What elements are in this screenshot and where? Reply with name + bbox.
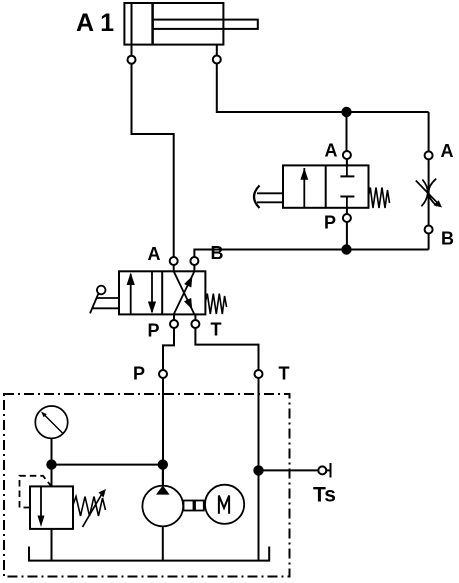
relief valve internal arrow xyxy=(40,486,42,517)
junction pump xyxy=(159,460,167,468)
power unit enclosure dash-dot box xyxy=(4,394,290,577)
4/2 lever links xyxy=(97,297,120,299)
2/2 valve spring xyxy=(369,188,390,209)
2/2 valve V2 body xyxy=(283,165,369,207)
4/2 spring xyxy=(205,294,226,314)
reservoir line xyxy=(29,547,269,561)
wire right port to top rail xyxy=(217,64,429,113)
pump outlet wire xyxy=(162,526,164,560)
svg-text:B: B xyxy=(211,243,224,263)
motor letter M xyxy=(219,496,229,514)
2/2 valve divider xyxy=(325,165,327,207)
svg-text:Ts: Ts xyxy=(313,484,336,507)
2/2 valve port A circle xyxy=(343,151,351,159)
svg-text:P: P xyxy=(324,213,336,233)
4/2 valve port B circle xyxy=(190,257,198,265)
Ts end bar xyxy=(330,463,332,478)
svg-text:A 1: A 1 xyxy=(76,9,114,37)
pump triangle xyxy=(156,486,170,495)
cylinder right port line xyxy=(216,45,218,56)
wire junction down to 2/2 valve A xyxy=(346,112,348,151)
pump P1 circle xyxy=(142,486,183,527)
4/2 left square up arrow xyxy=(130,274,132,314)
throttle through-wire xyxy=(428,159,430,225)
wire T to power unit xyxy=(195,328,258,370)
4/2 left square down arrow xyxy=(151,271,153,312)
2/2 valve blocked port top xyxy=(346,165,348,176)
4/2 lever knob xyxy=(97,286,106,295)
svg-text:T: T xyxy=(211,320,222,340)
svg-text:T: T xyxy=(279,364,290,384)
junction Ts xyxy=(254,466,262,474)
2/2 valve P stub xyxy=(346,208,348,214)
gauge stem xyxy=(51,438,53,464)
4/2 valve port T circle xyxy=(191,320,199,328)
svg-text:B: B xyxy=(441,229,454,249)
cylinder right port xyxy=(213,56,221,64)
throttle valve arcs xyxy=(421,180,427,207)
2/2 valve open-path arrow xyxy=(303,168,305,208)
wire left port to valve A xyxy=(132,64,174,257)
4/2 valve port P circle xyxy=(170,320,178,328)
bottom rail wire xyxy=(194,250,428,258)
throttle valve port B circle xyxy=(425,226,433,234)
cylinder piston xyxy=(151,3,154,45)
coupling boxes xyxy=(184,501,194,511)
2/2 valve blocked port bottom xyxy=(340,196,354,198)
wire P to power unit xyxy=(163,328,174,370)
cylinder cap line xyxy=(131,3,133,45)
cylinder A1 body xyxy=(124,3,223,45)
pump inlet wire xyxy=(162,465,164,486)
svg-text:A: A xyxy=(441,141,454,161)
relief valve adjust arrow xyxy=(83,492,104,527)
junction top xyxy=(342,108,350,116)
relief valve inlet wire xyxy=(51,465,53,487)
pressure gauge xyxy=(35,406,67,438)
throttle adjust arrow xyxy=(416,181,439,205)
4/2 right square cross path A-T xyxy=(174,271,195,314)
wire P down inside unit xyxy=(162,378,164,486)
2/2 valve push button actuator xyxy=(254,186,260,209)
relief valve pilot dashed line xyxy=(20,476,52,508)
relief valve spring xyxy=(73,497,106,517)
relief valve outlet wire xyxy=(51,529,53,561)
power unit port P circle xyxy=(159,370,167,378)
Ts port circle xyxy=(318,466,326,474)
motor M1 circle xyxy=(205,485,244,524)
svg-text:P: P xyxy=(148,321,160,341)
throttle valve port A circle xyxy=(425,151,433,159)
gauge rail wire xyxy=(52,464,163,466)
wire T down inside unit xyxy=(258,378,260,561)
wire P to bottom rail xyxy=(346,222,348,250)
4/2 divider xyxy=(161,271,163,314)
4/2 lever arm xyxy=(90,293,99,313)
cylinder left port xyxy=(128,56,136,64)
2/2 valve A stub xyxy=(346,159,348,165)
2/2 valve port P circle xyxy=(343,214,351,222)
Ts wire xyxy=(259,469,319,471)
cylinder left port line xyxy=(131,45,133,56)
wire throttle B down xyxy=(428,234,430,250)
wire right rail down xyxy=(428,112,430,151)
junction bottom xyxy=(342,245,350,253)
power unit port T circle xyxy=(255,370,263,378)
svg-text:P: P xyxy=(133,364,145,384)
svg-text:A: A xyxy=(325,141,338,161)
4/2 valve port A circle xyxy=(170,257,178,265)
svg-text:A: A xyxy=(148,244,161,264)
directional valve V1 body xyxy=(119,271,205,314)
relief valve RV1 body xyxy=(30,486,73,529)
gauge needle xyxy=(44,415,63,434)
junction gauge xyxy=(47,460,55,468)
cylinder rod xyxy=(153,20,258,29)
4/2 right square cross path P-B with arrow xyxy=(174,271,195,314)
